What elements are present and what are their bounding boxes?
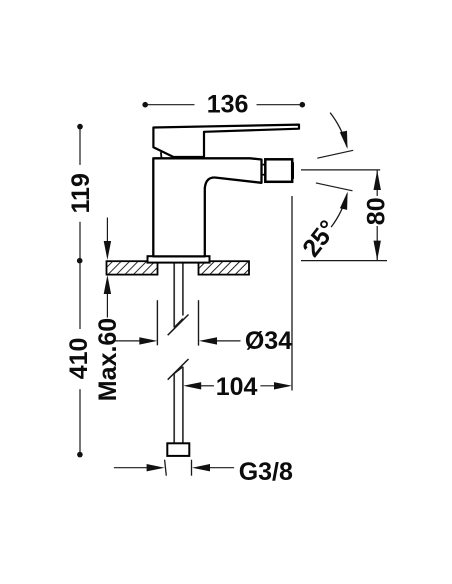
svg-text:136: 136 [207,91,249,119]
svg-text:104: 104 [216,373,258,401]
svg-text:Ø34: Ø34 [245,327,292,355]
svg-text:119: 119 [67,173,95,213]
svg-text:410: 410 [65,338,93,380]
svg-text:G3/8: G3/8 [239,458,293,486]
svg-text:Max.60: Max.60 [94,318,122,401]
svg-text:80: 80 [363,197,391,225]
svg-text:25°: 25° [297,215,342,262]
